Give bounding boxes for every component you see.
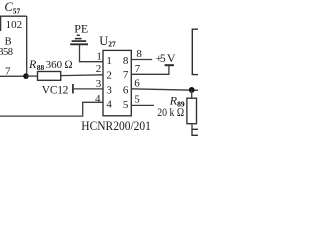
- PE earth ground symbol: [70, 35, 88, 44]
- svg-text:360: 360: [46, 59, 63, 71]
- svg-text:7: 7: [5, 65, 11, 77]
- svg-text:PE: PE: [74, 22, 88, 36]
- svg-text:HCNR200/201: HCNR200/201: [81, 118, 151, 133]
- pin 8 stub wire: [131, 59, 152, 61]
- svg-text:88: 88: [37, 63, 45, 72]
- svg-text:V: V: [167, 51, 176, 65]
- wire C57 to node A: [26, 16, 28, 73]
- wire IC pin 4 elbow to left edge: [0, 102, 103, 116]
- wire VC12 to IC pin 3: [73, 88, 103, 90]
- svg-text:1: 1: [106, 55, 112, 67]
- IC U27 box: [103, 50, 131, 115]
- wire below R89: [191, 124, 193, 130]
- capacitor C57 box (clipped at left edge): [1, 16, 27, 31]
- svg-text:4: 4: [95, 93, 101, 105]
- svg-text:8: 8: [123, 55, 129, 67]
- svg-text:1: 1: [96, 51, 102, 63]
- svg-text:R: R: [28, 57, 37, 71]
- svg-text:3: 3: [96, 78, 102, 90]
- wire node B to resistor R89: [191, 90, 193, 98]
- svg-text:6: 6: [123, 85, 129, 97]
- wire R88 to IC pin 2: [61, 74, 103, 77]
- svg-text:2: 2: [96, 63, 102, 75]
- node A junction dot: [23, 73, 29, 79]
- svg-text:5: 5: [123, 99, 129, 111]
- svg-text:4: 4: [106, 99, 112, 111]
- terminal VC12 bar: [72, 84, 74, 93]
- svg-text:3: 3: [106, 84, 112, 96]
- node B junction dot: [189, 87, 195, 93]
- resistor R88 label 360 ohm: [28, 57, 73, 72]
- svg-text:VC12: VC12: [42, 85, 69, 97]
- svg-text:+5: +5: [156, 53, 166, 65]
- wire PE to IC pin 1: [80, 45, 104, 62]
- svg-text:102: 102: [6, 19, 23, 31]
- svg-text:7: 7: [135, 63, 141, 75]
- svg-text:Ω: Ω: [64, 59, 72, 71]
- svg-text:358: 358: [0, 47, 13, 58]
- svg-text:7: 7: [123, 69, 129, 81]
- resistor R88: [38, 72, 61, 81]
- svg-text:2: 2: [106, 70, 112, 82]
- svg-text:6: 6: [134, 78, 140, 90]
- svg-text:5: 5: [134, 94, 140, 106]
- resistor R89: [187, 98, 197, 124]
- wire node A to resistor R88: [26, 75, 38, 77]
- wire +5V to IC pin 7: [131, 65, 169, 74]
- svg-text:20 k Ω: 20 k Ω: [157, 105, 184, 119]
- pin 5 stub wire: [131, 104, 154, 106]
- +5V supply bar: [165, 64, 174, 66]
- svg-text:8: 8: [136, 48, 142, 60]
- component box below R89 (clipped at right edge): [192, 129, 198, 135]
- wire IC pin 6 to right edge: [131, 89, 198, 91]
- wire op-amp pin7 to node A: [0, 75, 26, 77]
- component box top right (clipped): [192, 29, 198, 74]
